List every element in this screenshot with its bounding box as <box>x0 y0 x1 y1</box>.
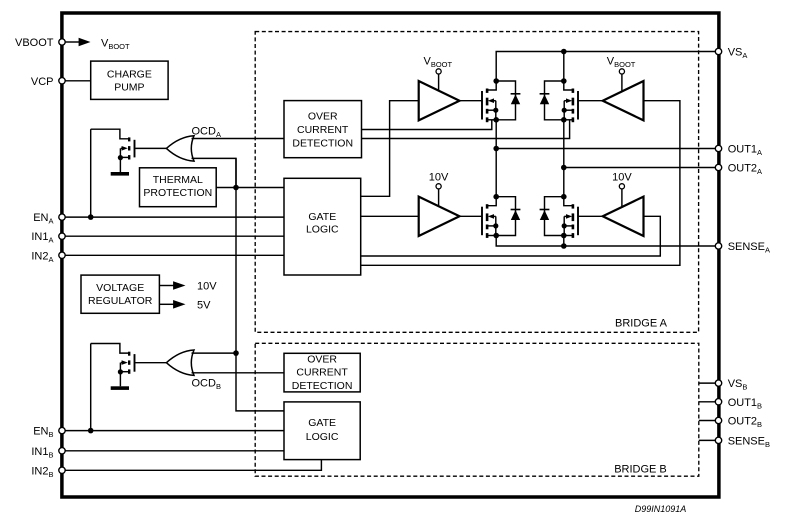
svg-text:GATE: GATE <box>308 417 336 429</box>
svg-text:D99IN1091A: D99IN1091A <box>635 504 687 514</box>
svg-text:LOGIC: LOGIC <box>306 224 339 236</box>
svg-text:BRIDGE A: BRIDGE A <box>615 318 668 330</box>
svg-text:10V: 10V <box>429 172 449 184</box>
svg-text:OVER: OVER <box>308 111 338 123</box>
svg-text:VBOOT: VBOOT <box>15 37 54 49</box>
svg-text:OVER: OVER <box>307 353 337 365</box>
svg-text:PROTECTION: PROTECTION <box>143 187 212 199</box>
svg-text:VCP: VCP <box>31 76 54 88</box>
svg-text:10V: 10V <box>612 172 632 184</box>
svg-text:PUMP: PUMP <box>114 81 144 93</box>
svg-text:5V: 5V <box>197 299 211 311</box>
svg-text:DETECTION: DETECTION <box>292 380 353 392</box>
svg-text:LOGIC: LOGIC <box>306 431 339 443</box>
svg-text:REGULATOR: REGULATOR <box>88 295 153 307</box>
svg-text:OUT1B: OUT1B <box>728 397 762 411</box>
svg-text:OUT2B: OUT2B <box>728 416 762 430</box>
svg-text:SENSEB: SENSEB <box>728 435 770 449</box>
svg-text:THERMAL: THERMAL <box>153 174 203 186</box>
svg-text:OUT2A: OUT2A <box>728 163 762 177</box>
svg-text:OUT1A: OUT1A <box>728 144 762 158</box>
svg-text:10V: 10V <box>197 281 217 293</box>
svg-text:SENSEA: SENSEA <box>728 241 770 255</box>
svg-text:CHARGE: CHARGE <box>107 69 152 81</box>
svg-text:GATE: GATE <box>308 211 336 223</box>
svg-text:DETECTION: DETECTION <box>292 138 353 150</box>
svg-text:CURRENT: CURRENT <box>297 124 349 136</box>
svg-text:CURRENT: CURRENT <box>296 367 348 379</box>
svg-text:BRIDGE B: BRIDGE B <box>614 463 667 475</box>
svg-text:VOLTAGE: VOLTAGE <box>96 282 144 294</box>
